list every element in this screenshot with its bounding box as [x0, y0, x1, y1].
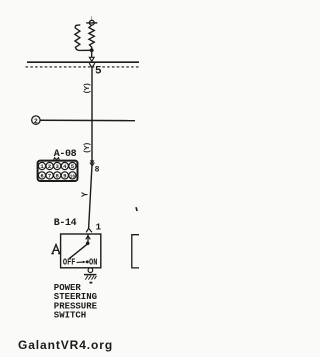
female connector fork, pin 5 [89, 63, 95, 67]
svg-text:5: 5 [95, 65, 102, 77]
wire (main vertical run) [91, 70, 93, 165]
svg-text:1: 1 [96, 222, 102, 232]
pin label 5 [94, 65, 100, 75]
switch box B-14 [61, 234, 101, 268]
svg-text:Y: Y [81, 191, 90, 197]
wire down to switch [89, 165, 92, 228]
svg-text:(Y): (Y) [82, 142, 91, 153]
junction dot [90, 48, 94, 52]
svg-text:10: 10 [70, 175, 76, 180]
terminal circle on right link top [91, 16, 93, 20]
component connector fork at B-14, pin 1 [86, 228, 92, 232]
fusible link FL (right zigzag) [89, 25, 94, 50]
harness boundary dashed line [26, 66, 140, 68]
svg-text:B-14: B-14 [54, 218, 77, 229]
page connector circled 2 [32, 116, 40, 124]
svg-text:GalantVR4.org: GalantVR4.org [18, 338, 113, 352]
svg-text:7: 7 [48, 173, 51, 180]
male connector triangle [89, 57, 94, 61]
ON contact dot [86, 260, 89, 263]
component name POWER STEERING PRESSURE SWITCH [54, 283, 98, 321]
wire from circled 2 [40, 119, 135, 121]
in-line connector arrow on wire (A-08 pin 8) [90, 160, 95, 164]
ground (case) [88, 268, 93, 273]
switch lever [69, 244, 87, 259]
triangle marker A [51, 245, 61, 254]
adjacent component box (cut off) [132, 235, 139, 268]
svg-text:2: 2 [34, 118, 38, 125]
switch pivot dot [86, 242, 90, 246]
section border line [27, 61, 139, 63]
wire down to connector [91, 50, 93, 57]
terminal stem inside box [87, 234, 89, 242]
stray mark near right edge [136, 207, 137, 211]
wire joining links [81, 49, 90, 51]
svg-text:SWITCH: SWITCH [54, 311, 86, 321]
fusible link FL (left zigzag) [75, 25, 81, 51]
pin circles row 1 [38, 162, 76, 179]
connector A-08 latch tab [54, 158, 60, 161]
pin numbers [40, 163, 75, 179]
svg-text:ON: ON [89, 258, 98, 268]
connector A-08 face block [38, 161, 78, 181]
arrow OFF to ON [77, 261, 83, 263]
svg-text:OFF: OFF [63, 258, 76, 268]
svg-text:8: 8 [95, 165, 100, 174]
svg-text:(Y): (Y) [82, 83, 91, 94]
